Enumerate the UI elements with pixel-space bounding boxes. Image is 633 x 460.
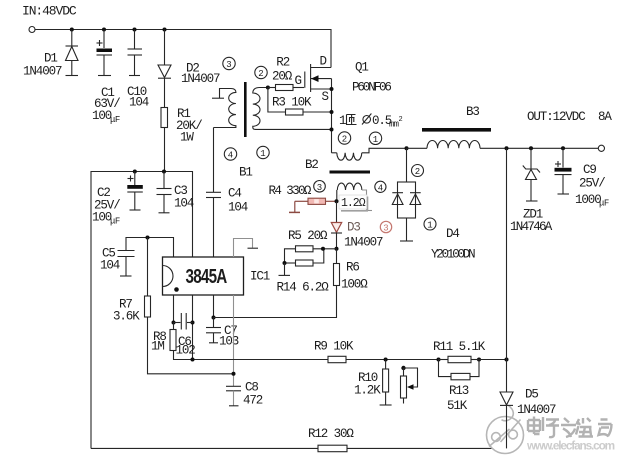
resistor R14 bbox=[277, 249, 330, 295]
svg-text:104: 104 bbox=[129, 96, 149, 110]
svg-text:C9: C9 bbox=[583, 163, 596, 177]
inductor B3 core bbox=[422, 128, 491, 132]
capacitor C9 bbox=[555, 148, 609, 208]
node D2 junction bbox=[163, 28, 167, 32]
capacitor C6 bbox=[174, 313, 196, 358]
svg-text:R11 5.1K: R11 5.1K bbox=[433, 340, 486, 354]
wire output rail bbox=[480, 147, 598, 149]
svg-text:OUT:12VDC: OUT:12VDC bbox=[527, 110, 585, 124]
node R3 junction bbox=[330, 110, 334, 114]
transformer B1 primary winding pins 3-4 bbox=[212, 89, 236, 128]
capacitor C8 bbox=[226, 381, 263, 408]
capacitor C10 bbox=[127, 30, 149, 110]
rectifier D4 Y20100DN bbox=[392, 148, 475, 261]
resistor R1 bbox=[161, 107, 202, 172]
wire IC pin6 down bbox=[173, 295, 175, 323]
label 1.2 ohm highlight box bbox=[339, 195, 368, 211]
svg-text:2: 2 bbox=[258, 69, 263, 79]
label wire gauge 0.5mm2 bbox=[362, 114, 403, 130]
svg-text:2: 2 bbox=[415, 167, 420, 177]
svg-text:100: 100 bbox=[92, 109, 112, 123]
svg-text:3845A: 3845A bbox=[186, 266, 227, 288]
node R11 right junction bbox=[477, 358, 481, 362]
svg-text:R12 30Ω: R12 30Ω bbox=[308, 427, 354, 441]
wire IC pin4 down bbox=[213, 295, 215, 318]
node C6 right junction bbox=[191, 321, 195, 325]
pin number 1 of D4 bbox=[424, 218, 436, 231]
svg-text:IN:48VDC: IN:48VDC bbox=[22, 4, 77, 19]
resistor R6 bbox=[334, 249, 369, 292]
transformer B1 secondary winding pins 2-1 bbox=[253, 88, 332, 130]
node C7 junction bbox=[212, 316, 216, 320]
svg-text:1N4007: 1N4007 bbox=[517, 403, 556, 417]
capacitor C1 bbox=[92, 30, 120, 126]
wire C7 node to R6 bbox=[214, 286, 337, 318]
svg-text:μF: μF bbox=[110, 115, 120, 125]
node D1 junction bbox=[70, 28, 74, 32]
svg-text:1.2K: 1.2K bbox=[354, 384, 381, 398]
pin number 3 of B2 bbox=[314, 181, 326, 193]
pin number 2 of B2 bbox=[338, 132, 350, 145]
svg-text:2: 2 bbox=[399, 116, 403, 124]
svg-text:μF: μF bbox=[599, 199, 609, 209]
resistor R8 bbox=[151, 323, 193, 360]
node C1 junction bbox=[102, 28, 106, 32]
svg-text:1N4007: 1N4007 bbox=[181, 72, 220, 86]
wire IC pin5 down bbox=[192, 295, 194, 360]
svg-text:D1: D1 bbox=[44, 52, 57, 66]
svg-text:R4 330Ω: R4 330Ω bbox=[269, 184, 312, 198]
svg-text:1N4746A: 1N4746A bbox=[510, 220, 553, 234]
inductor B3 winding bbox=[407, 141, 481, 149]
svg-text:3: 3 bbox=[226, 60, 231, 70]
svg-text:8A: 8A bbox=[598, 110, 612, 124]
svg-text:51K: 51K bbox=[447, 399, 468, 413]
svg-text:1.2Ω: 1.2Ω bbox=[341, 197, 366, 210]
node R7 junction bbox=[146, 236, 150, 240]
label OUT:12VDC 8A bbox=[527, 110, 612, 124]
pin number 2 of B1 bbox=[255, 66, 267, 79]
node secondary rail junction bbox=[405, 146, 409, 150]
node C10 junction bbox=[133, 28, 137, 32]
pin number 4 of B1 bbox=[224, 148, 236, 161]
watermark url bbox=[526, 441, 615, 453]
svg-text:S: S bbox=[322, 90, 329, 104]
svg-text:μF: μF bbox=[110, 217, 120, 227]
svg-text:1W: 1W bbox=[180, 131, 194, 145]
svg-text:100Ω: 100Ω bbox=[341, 278, 368, 292]
svg-text:3.6K: 3.6K bbox=[113, 310, 140, 324]
svg-text:R9 10K: R9 10K bbox=[314, 340, 354, 354]
capacitor C3 bbox=[157, 172, 194, 213]
resistor R5 bbox=[285, 229, 337, 263]
wire IC pin stub reference bbox=[234, 239, 259, 258]
node gate drive junction bbox=[266, 86, 270, 90]
op-amp U1 IC 3845A bbox=[163, 257, 270, 295]
resistor R12 bbox=[308, 427, 492, 452]
resistor R7 bbox=[113, 238, 234, 374]
svg-text:1M: 1M bbox=[151, 340, 164, 354]
transformer B2 core bbox=[330, 171, 371, 174]
diode D5 1N4007 bbox=[500, 148, 556, 448]
svg-text:100: 100 bbox=[92, 211, 112, 225]
resistor R2 bbox=[268, 56, 304, 91]
node C3 junction bbox=[162, 170, 166, 174]
terminal stub below R14 bbox=[279, 263, 291, 275]
svg-text:D3: D3 bbox=[347, 221, 360, 235]
svg-text:R2: R2 bbox=[276, 56, 289, 70]
wire IC pin3 gray down bbox=[233, 295, 235, 386]
svg-text:1N4007: 1N4007 bbox=[344, 236, 383, 250]
node R5 right junction bbox=[321, 247, 325, 251]
svg-text:4: 4 bbox=[378, 183, 383, 193]
svg-text:25V/: 25V/ bbox=[579, 177, 605, 191]
pin number 1 of B2 bbox=[369, 132, 381, 145]
capacitor C2 bbox=[92, 172, 143, 227]
transformer B2 secondary winding pins 3-4 bbox=[337, 183, 372, 210]
svg-text:20Ω: 20Ω bbox=[272, 70, 293, 84]
pin number 4 of B2 bbox=[375, 181, 386, 193]
svg-text:3: 3 bbox=[317, 183, 322, 193]
node D5 top junction bbox=[505, 146, 509, 150]
label B1 bbox=[239, 166, 252, 180]
svg-text:C8: C8 bbox=[245, 381, 258, 395]
capacitor C5 bbox=[100, 247, 135, 277]
svg-text:103: 103 bbox=[219, 335, 239, 349]
watermark text elecfans bbox=[527, 415, 611, 436]
node Q1 source junction bbox=[330, 87, 334, 91]
label IN:48VDC bbox=[22, 4, 77, 19]
label B3 bbox=[466, 105, 479, 119]
svg-text:R5 20Ω: R5 20Ω bbox=[288, 229, 328, 243]
svg-text:D5: D5 bbox=[525, 388, 538, 402]
svg-text:102: 102 bbox=[176, 344, 196, 358]
svg-text:R13: R13 bbox=[449, 384, 469, 398]
resistor R10 bbox=[354, 360, 392, 406]
svg-text:1: 1 bbox=[260, 149, 265, 159]
output terminal bbox=[598, 145, 604, 151]
svg-text:104: 104 bbox=[228, 201, 248, 215]
node C6 left junction bbox=[172, 321, 176, 325]
node R11 left junction bbox=[437, 358, 441, 362]
capacitor C4 bbox=[206, 128, 248, 258]
svg-text:104: 104 bbox=[100, 259, 120, 273]
svg-text:Y20100DN: Y20100DN bbox=[431, 248, 475, 262]
node R6 top junction bbox=[335, 247, 339, 251]
node R8 bottom junction bbox=[191, 358, 195, 362]
resistor R4 330ohm highlighted bbox=[269, 184, 337, 212]
svg-text:472: 472 bbox=[243, 394, 263, 408]
svg-text:B2: B2 bbox=[305, 158, 318, 172]
node R14 left junction bbox=[283, 261, 287, 265]
node B1 pin1 junction bbox=[330, 128, 334, 132]
resistor R3 bbox=[268, 88, 332, 116]
svg-text:2: 2 bbox=[342, 135, 347, 145]
svg-text:C4: C4 bbox=[228, 187, 241, 201]
node C2 junction bbox=[133, 170, 137, 174]
resistor R11 bbox=[433, 340, 507, 363]
svg-text:1: 1 bbox=[339, 114, 346, 128]
transformer B1 core bbox=[244, 82, 247, 137]
resistor R9 bbox=[314, 340, 439, 363]
svg-text:R3 10K: R3 10K bbox=[272, 96, 312, 110]
svg-text:1N4007: 1N4007 bbox=[23, 65, 62, 79]
wire bottom rail left bbox=[91, 447, 318, 449]
node C9 junction bbox=[561, 146, 565, 150]
input terminal bbox=[29, 27, 35, 33]
node D3 top junction bbox=[335, 199, 339, 203]
svg-text:1000: 1000 bbox=[575, 193, 601, 207]
diode D3 highlighted bbox=[331, 201, 383, 249]
svg-text:mm: mm bbox=[389, 120, 399, 130]
svg-text:4: 4 bbox=[228, 151, 233, 161]
label 1 turn bbox=[339, 114, 357, 128]
node R7 wire junction bbox=[232, 372, 236, 376]
svg-text:104: 104 bbox=[174, 197, 194, 211]
svg-text:IC1: IC1 bbox=[250, 270, 270, 284]
node ZD1 junction bbox=[529, 146, 533, 150]
svg-text:Q1: Q1 bbox=[355, 61, 368, 75]
pin number 3 of B1 bbox=[223, 57, 235, 70]
svg-text:B1: B1 bbox=[239, 166, 252, 180]
pin number 2 of D4 bbox=[412, 165, 424, 178]
svg-text:G: G bbox=[295, 74, 302, 88]
svg-text:1: 1 bbox=[373, 135, 378, 145]
capacitor C7 bbox=[206, 318, 239, 349]
svg-text:www.elecfans.com: www.elecfans.com bbox=[526, 441, 615, 453]
resistor R13 parallel bbox=[439, 360, 480, 414]
transformer B2 primary winding pins 2-1 bbox=[332, 148, 407, 160]
wire feedback line bbox=[193, 359, 329, 361]
wire VCC rail and left border bbox=[91, 172, 193, 449]
node R10 junction bbox=[384, 358, 388, 362]
node D5 feedback junction bbox=[505, 358, 509, 362]
wire top input rail bbox=[35, 30, 331, 68]
svg-text:R14 6.2Ω: R14 6.2Ω bbox=[277, 281, 330, 295]
svg-text:D4: D4 bbox=[446, 227, 459, 241]
diode D1 bbox=[23, 30, 78, 79]
watermark logo circle bbox=[487, 406, 524, 454]
svg-text:R6: R6 bbox=[346, 261, 359, 275]
potentiometer trimmer bbox=[401, 366, 418, 404]
svg-text:D: D bbox=[320, 55, 327, 69]
pin number 3 of D4 red bbox=[380, 221, 391, 233]
svg-text:P60NF06: P60NF06 bbox=[352, 81, 391, 95]
svg-text:1: 1 bbox=[427, 221, 432, 231]
zener diode ZD1 1N4746A bbox=[510, 148, 553, 234]
pin number 1 of B1 bbox=[257, 146, 269, 159]
transistor Q1 MOSFET P60NF06 bbox=[295, 55, 392, 153]
label B2 bbox=[305, 158, 318, 172]
wire C5 to IC bbox=[126, 238, 174, 258]
diode D2 bbox=[158, 30, 220, 108]
svg-text:3: 3 bbox=[383, 224, 388, 234]
svg-text:B3: B3 bbox=[466, 105, 479, 119]
